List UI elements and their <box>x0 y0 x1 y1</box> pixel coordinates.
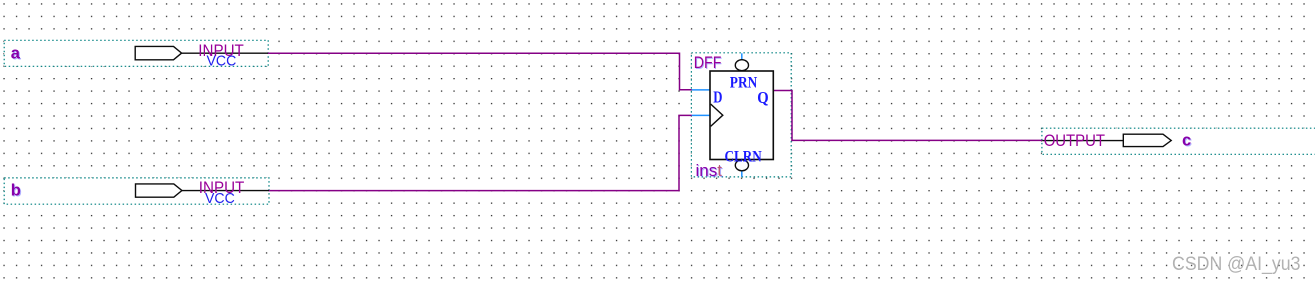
DFF U1: clock input stub (blue) <box>692 114 710 116</box>
DFF U1: clock triangle <box>711 104 723 126</box>
output pin c: selection box <box>1042 128 1315 154</box>
svg-text:PRN: PRN <box>730 75 757 92</box>
svg-text:b: b <box>11 181 21 199</box>
input pin b: selection box <box>4 178 269 204</box>
wire: net c from DFF Q output to output pin <box>774 91 1043 141</box>
input pin b: arrow body <box>136 184 182 197</box>
svg-text:CLRN: CLRN <box>725 149 762 166</box>
DFF U1: body rectangle <box>710 71 773 160</box>
svg-text:DFF: DFF <box>694 53 722 72</box>
DFF U1: PRN stub (blue) <box>741 53 743 60</box>
svg-text:OUTPUT: OUTPUT <box>1044 132 1105 150</box>
DFF U1: D input stub (blue) <box>692 89 710 91</box>
svg-text:VCC: VCC <box>205 191 235 207</box>
svg-text:Q: Q <box>757 88 769 107</box>
output pin c: arrow body <box>1123 134 1171 146</box>
input pin b: symbol lead line <box>182 190 269 192</box>
wire: net b from input pin to DFF clock input <box>269 115 692 190</box>
svg-text:c: c <box>1182 132 1191 150</box>
DFF U1: CLRN bubble <box>735 160 748 171</box>
input pin a: symbol lead line <box>181 52 268 54</box>
DFF U1: CLRN stub (blue) <box>741 171 743 177</box>
input pin a: arrow body <box>135 46 181 59</box>
svg-text:a: a <box>11 45 21 63</box>
DFF U1: selection box <box>691 53 791 177</box>
svg-text:D: D <box>713 87 722 106</box>
wire: net a from input pin to DFF D input <box>268 53 692 89</box>
input pin a: selection box <box>4 40 268 66</box>
output pin c: symbol lead line <box>1042 140 1123 142</box>
svg-text:VCC: VCC <box>207 54 237 70</box>
svg-text:CSDN @AI_yu3: CSDN @AI_yu3 <box>1172 254 1301 275</box>
DFF U1: PRN bubble <box>735 60 748 71</box>
svg-text:inst: inst <box>696 161 723 180</box>
